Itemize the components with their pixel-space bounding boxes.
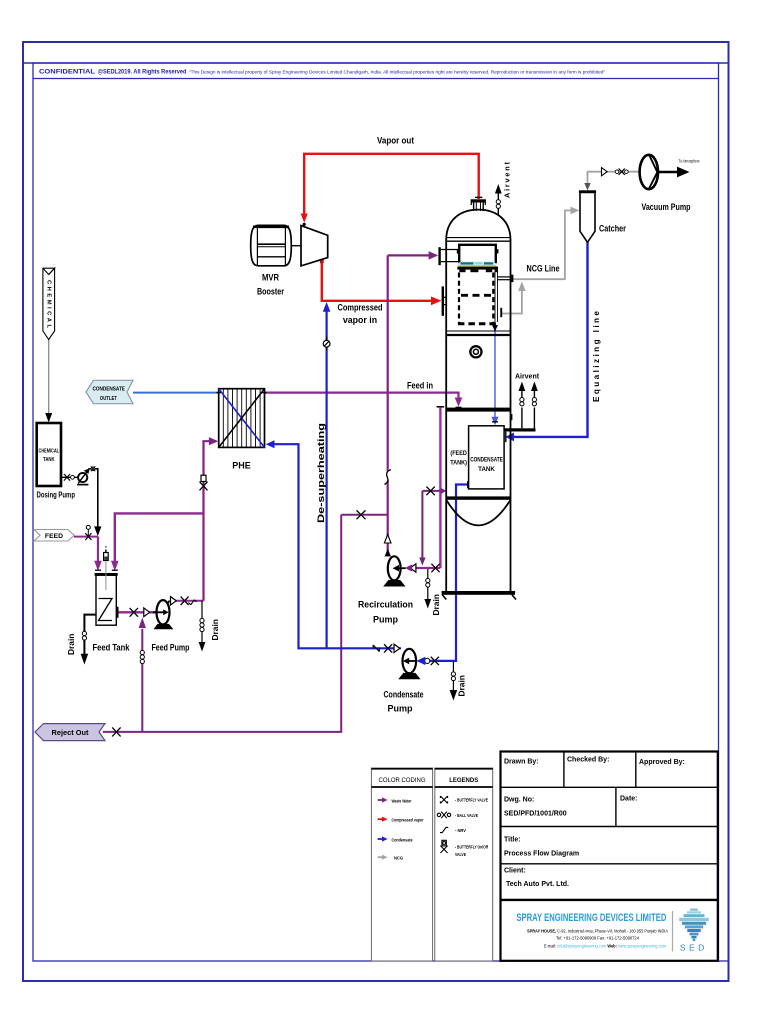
svg-text:Drain: Drain bbox=[457, 675, 467, 696]
svg-text:Booster: Booster bbox=[257, 287, 284, 297]
svg-text:PHE: PHE bbox=[232, 461, 251, 471]
svg-text:VALVE: VALVE bbox=[455, 852, 467, 858]
svg-text:CONDENSATE: CONDENSATE bbox=[92, 387, 125, 393]
svg-text:Title:: Title: bbox=[504, 837, 521, 844]
svg-text:Drain: Drain bbox=[66, 634, 76, 655]
svg-text:Drawn By:: Drawn By: bbox=[504, 759, 539, 766]
svg-text:TANK: TANK bbox=[43, 457, 55, 463]
svg-text:@SEDL2019. All Rights Reserved: @SEDL2019. All Rights Reserved bbox=[98, 70, 187, 76]
svg-text:Vacuum Pump: Vacuum Pump bbox=[642, 202, 691, 212]
svg-text:TANK: TANK bbox=[478, 466, 495, 473]
svg-text:CONFIDENTIAL: CONFIDENTIAL bbox=[39, 69, 95, 76]
svg-text:NCG Line: NCG Line bbox=[527, 264, 560, 274]
svg-text:Catcher: Catcher bbox=[599, 224, 626, 234]
svg-text:De-superheating: De-superheating bbox=[316, 423, 326, 523]
svg-text:Process Flow Diagram: Process Flow Diagram bbox=[504, 851, 579, 858]
svg-text:CONDENSATE: CONDENSATE bbox=[470, 456, 503, 463]
svg-text:SED: SED bbox=[680, 943, 708, 953]
svg-text:NCG: NCG bbox=[394, 856, 403, 861]
svg-text:Approved By:: Approved By: bbox=[639, 759, 685, 766]
svg-text:Drain: Drain bbox=[431, 594, 441, 615]
svg-text:“This Design is intellectual p: “This Design is intellectual property of… bbox=[189, 69, 605, 74]
svg-text:SPRAY ENGINEERING DEVICES LIMI: SPRAY ENGINEERING DEVICES LIMITED bbox=[516, 912, 666, 924]
svg-text:Airvent: Airvent bbox=[515, 374, 540, 381]
svg-text:Reject Out: Reject Out bbox=[52, 728, 89, 737]
svg-text:CHEMICAL: CHEMICAL bbox=[39, 449, 60, 455]
svg-text:Compressed: Compressed bbox=[338, 303, 383, 313]
svg-text:Tel: +91-172-5090900 Fax: +91-: Tel: +91-172-5090900 Fax: +91-172-509072… bbox=[556, 936, 639, 942]
svg-text:Condensate: Condensate bbox=[392, 837, 413, 842]
svg-text:Vapor out: Vapor out bbox=[377, 136, 414, 146]
svg-text:Client:: Client: bbox=[504, 868, 526, 875]
svg-text:Feed in: Feed in bbox=[407, 380, 433, 390]
svg-text:Condensate: Condensate bbox=[384, 690, 424, 700]
svg-text:To Atmosphere: To Atmosphere bbox=[679, 159, 700, 164]
svg-text:SED/PFD/1001/R00: SED/PFD/1001/R00 bbox=[504, 811, 567, 818]
svg-text:Compressed vapor: Compressed vapor bbox=[392, 818, 424, 823]
svg-text:- NRV: - NRV bbox=[455, 828, 467, 834]
svg-text:COLOR CODING: COLOR CODING bbox=[378, 778, 425, 784]
svg-text:LEGENDS: LEGENDS bbox=[449, 778, 478, 784]
svg-text:Waste Water: Waste Water bbox=[392, 798, 412, 803]
svg-text:CHEMICAL: CHEMICAL bbox=[46, 280, 52, 328]
svg-text:Pump: Pump bbox=[373, 615, 399, 625]
svg-text:SPRAY HOUSE, C-92, Industrial: SPRAY HOUSE, C-92, Industrial Area, Phas… bbox=[527, 928, 669, 934]
svg-text:Feed Pump: Feed Pump bbox=[152, 643, 190, 653]
svg-text:Tech Auto Pvt. Ltd.: Tech Auto Pvt. Ltd. bbox=[506, 881, 569, 888]
svg-text:- BUTTERFLY On/Off: - BUTTERFLY On/Off bbox=[455, 845, 488, 851]
svg-text:E-mail: info@sprayengineering.: E-mail: info@sprayengineering.com Web: w… bbox=[544, 943, 666, 949]
svg-text:Checked By:: Checked By: bbox=[567, 757, 609, 764]
svg-text:(FEED: (FEED bbox=[450, 451, 467, 457]
svg-text:Recirculation: Recirculation bbox=[358, 600, 413, 610]
svg-text:Drain: Drain bbox=[210, 619, 220, 640]
svg-text:TANK): TANK) bbox=[450, 460, 467, 466]
svg-text:Pump: Pump bbox=[387, 704, 413, 714]
svg-text:Feed Tank: Feed Tank bbox=[93, 643, 131, 653]
svg-text:OUTLET: OUTLET bbox=[100, 396, 117, 402]
svg-text:FEED: FEED bbox=[45, 533, 63, 540]
svg-text:Dwg. No:: Dwg. No: bbox=[504, 797, 534, 804]
svg-text:- BUTTERFLY VALVE: - BUTTERFLY VALVE bbox=[455, 798, 489, 804]
svg-text:vapor in: vapor in bbox=[343, 315, 377, 325]
svg-text:MVR: MVR bbox=[262, 273, 280, 283]
svg-text:Date:: Date: bbox=[620, 796, 638, 803]
svg-text:Dosing Pump: Dosing Pump bbox=[37, 491, 76, 500]
svg-text:- BALL VALVE: - BALL VALVE bbox=[455, 813, 479, 819]
